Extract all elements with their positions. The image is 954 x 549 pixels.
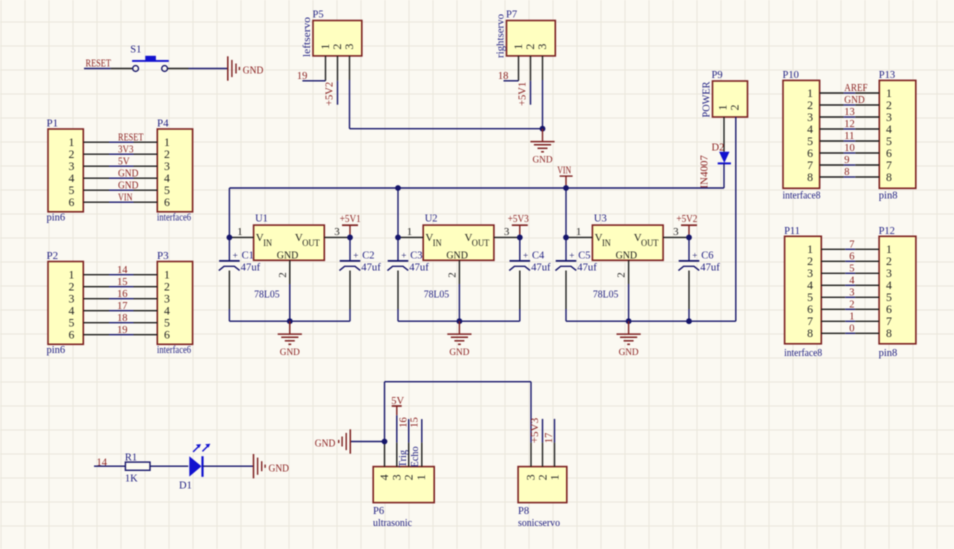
label interface8 (P11) xyxy=(784,348,822,359)
wires P2 to P3 xyxy=(84,275,158,335)
connector P12 xyxy=(879,226,916,344)
svg-text:47uf: 47uf xyxy=(361,262,381,273)
svg-text:GND: GND xyxy=(446,249,468,261)
capacitor C5 xyxy=(555,237,597,321)
svg-text:16: 16 xyxy=(399,417,410,428)
svg-text:pin6: pin6 xyxy=(47,213,66,224)
net label 16 xyxy=(399,417,410,428)
svg-text:GND: GND xyxy=(616,249,638,261)
svg-text:P5: P5 xyxy=(313,10,324,21)
svg-text:C4: C4 xyxy=(532,251,545,262)
wire RESET to S1 xyxy=(84,68,132,70)
power port +5V2 (P5) xyxy=(325,81,338,106)
svg-text:interface8: interface8 xyxy=(783,190,821,201)
svg-text:47uf: 47uf xyxy=(700,262,720,273)
svg-text:47uf: 47uf xyxy=(531,262,551,273)
power port GND (servos) xyxy=(530,129,554,166)
label pin8 (P13) xyxy=(879,190,898,201)
svg-text:19: 19 xyxy=(297,71,308,82)
svg-text:4: 4 xyxy=(849,275,855,286)
junction U2 ground xyxy=(457,318,463,324)
pin 3 of U2 xyxy=(494,226,520,238)
label interface8 (P10) xyxy=(783,190,821,201)
svg-text:18: 18 xyxy=(498,71,509,82)
svg-text:C6: C6 xyxy=(701,251,713,262)
net label 15 xyxy=(410,417,421,428)
svg-text:1: 1 xyxy=(576,226,582,238)
svg-text:15: 15 xyxy=(410,417,421,428)
label interface6 (P4) xyxy=(157,213,191,224)
capacitor C4 xyxy=(509,237,551,321)
capacitor C1 xyxy=(219,237,261,321)
connector P3 xyxy=(157,250,193,344)
svg-text:GND: GND xyxy=(118,168,139,179)
svg-text:pin8: pin8 xyxy=(879,190,898,201)
pin name Echo xyxy=(410,446,421,467)
power port +5V1 xyxy=(340,214,361,238)
svg-text:P8: P8 xyxy=(518,506,529,517)
svg-text:1: 1 xyxy=(414,474,428,480)
LED D1 xyxy=(179,444,210,492)
pin P6-1 xyxy=(421,443,423,467)
diode D2 xyxy=(712,143,731,164)
svg-text:OUT: OUT xyxy=(472,239,490,249)
junction VIN-U3 xyxy=(563,185,569,191)
svg-text:P10: P10 xyxy=(783,70,799,81)
capacitor C2 xyxy=(339,237,381,321)
svg-text:78L05: 78L05 xyxy=(424,289,450,300)
svg-text:rightservo: rightservo xyxy=(496,14,507,58)
net label 17 xyxy=(544,433,555,444)
pin 1 of U1 xyxy=(229,226,253,238)
wire VIN to U2 input xyxy=(397,188,399,237)
pin P7-1 xyxy=(518,56,520,81)
svg-text:+5V3: +5V3 xyxy=(530,418,541,444)
svg-text:1: 1 xyxy=(849,311,854,322)
pin P5-1 xyxy=(325,56,327,81)
svg-text:IN: IN xyxy=(263,239,272,249)
label ultrasonic (P6) xyxy=(373,518,412,529)
svg-text:3: 3 xyxy=(535,44,549,50)
pin P7-3 xyxy=(542,56,544,80)
junction U3 output xyxy=(686,235,692,241)
svg-text:5V: 5V xyxy=(118,156,130,167)
wire pin2 to ground rail xyxy=(289,284,291,321)
pin 2 of U2 xyxy=(447,260,460,284)
svg-text:GND: GND xyxy=(280,347,300,358)
svg-text:3: 3 xyxy=(334,226,340,238)
svg-text:Trig: Trig xyxy=(398,449,409,467)
junction P6 ground xyxy=(382,439,388,445)
svg-text:2: 2 xyxy=(277,272,289,278)
wire net 16 (P6-2) xyxy=(408,419,410,443)
svg-text:P3: P3 xyxy=(157,250,169,262)
capacitor C3 xyxy=(387,237,429,321)
power port 5V (P6) xyxy=(391,396,404,443)
pin P7-2 xyxy=(530,56,532,81)
svg-text:6: 6 xyxy=(164,328,170,342)
svg-text:+: + xyxy=(401,250,406,260)
svg-text:GND: GND xyxy=(619,347,639,358)
svg-text:+: + xyxy=(692,250,697,260)
svg-text:IN4007: IN4007 xyxy=(700,155,711,189)
svg-text:C2: C2 xyxy=(362,251,374,262)
svg-text:VIN: VIN xyxy=(557,166,571,177)
svg-text:47uf: 47uf xyxy=(409,262,429,273)
svg-text:C5: C5 xyxy=(578,251,590,262)
svg-text:C1: C1 xyxy=(242,251,254,262)
svg-text:RESET: RESET xyxy=(118,132,144,143)
wire VIN to U3 input xyxy=(565,188,567,237)
capacitor C6 xyxy=(678,237,720,321)
pin P8-1 xyxy=(554,443,556,467)
svg-text:IN: IN xyxy=(433,239,442,249)
svg-text:P13: P13 xyxy=(879,70,895,81)
net label 19 xyxy=(297,71,308,82)
svg-text:5: 5 xyxy=(849,263,854,274)
svg-text:1: 1 xyxy=(237,226,243,238)
label leftservo (P5) xyxy=(302,17,313,57)
svg-text:+: + xyxy=(233,250,238,260)
svg-text:8: 8 xyxy=(886,326,892,340)
wires P11 to P12 xyxy=(821,249,879,333)
wire P6-4 up to rail xyxy=(384,382,386,443)
junction U1 ground xyxy=(287,318,293,324)
svg-text:8: 8 xyxy=(844,167,849,178)
svg-text:D1: D1 xyxy=(179,481,192,492)
pin P9-2 wire down xyxy=(735,117,737,321)
svg-text:3: 3 xyxy=(342,44,356,50)
svg-text:12: 12 xyxy=(844,119,855,130)
svg-text:+: + xyxy=(353,250,358,260)
wire ground rail U3 xyxy=(566,320,736,322)
svg-text:OUT: OUT xyxy=(302,239,320,249)
svg-text:GND: GND xyxy=(118,180,139,191)
svg-text:pin8: pin8 xyxy=(879,348,898,359)
svg-text:+5V1: +5V1 xyxy=(518,82,529,106)
svg-text:D2: D2 xyxy=(712,143,725,154)
junction C6 ground rail xyxy=(686,318,692,324)
wire net 15 (P6-1) xyxy=(421,419,423,443)
svg-text:3: 3 xyxy=(673,226,679,238)
wires P10 to P13 xyxy=(820,93,880,177)
pin P5-3 xyxy=(349,56,351,80)
svg-text:P6: P6 xyxy=(373,506,384,517)
connector P5 xyxy=(313,10,362,56)
wire D2 to VIN rail xyxy=(723,163,725,188)
junction U3 input xyxy=(563,235,569,241)
svg-text:+5V1: +5V1 xyxy=(340,214,361,225)
svg-text:U1: U1 xyxy=(255,213,268,224)
connector P9 xyxy=(712,70,748,117)
svg-text:47uf: 47uf xyxy=(241,262,261,273)
net label RESET xyxy=(86,59,112,70)
label 78L05 (U3) xyxy=(593,289,619,300)
pin P8-3 xyxy=(530,443,532,467)
label pin6 (P1) xyxy=(47,213,66,224)
label 78L05 (U2) xyxy=(424,289,450,300)
svg-text:ultrasonic: ultrasonic xyxy=(373,518,412,529)
svg-text:+: + xyxy=(569,250,574,260)
svg-text:P2: P2 xyxy=(47,250,59,262)
svg-text:GND: GND xyxy=(449,347,469,358)
label pin6 (P2) xyxy=(47,345,66,356)
svg-text:S1: S1 xyxy=(130,45,141,56)
svg-text:15: 15 xyxy=(117,277,128,288)
svg-text:P1: P1 xyxy=(47,118,59,130)
svg-text:+5V2: +5V2 xyxy=(676,214,697,225)
pin P6-4 xyxy=(384,443,386,467)
svg-text:leftservo: leftservo xyxy=(302,17,313,57)
power port VIN xyxy=(557,166,572,188)
connector P6 xyxy=(373,467,434,517)
voltage regulator U1 xyxy=(254,213,325,261)
svg-text:1K: 1K xyxy=(125,474,138,485)
power port GND (U3) xyxy=(617,321,641,358)
svg-text:1: 1 xyxy=(407,226,413,238)
svg-text:6: 6 xyxy=(68,195,74,209)
switch S1 xyxy=(130,45,169,72)
pin P5-2 xyxy=(337,56,339,81)
label IN4007 xyxy=(700,155,711,189)
power port GND (reset) xyxy=(228,56,264,80)
svg-text:2: 2 xyxy=(447,272,459,278)
svg-text:GND: GND xyxy=(243,65,264,77)
svg-text:3: 3 xyxy=(504,226,510,238)
net label 18 xyxy=(498,71,509,82)
pin 2 of U3 xyxy=(616,260,629,284)
svg-text:17: 17 xyxy=(544,433,555,444)
junction U3 ground xyxy=(626,318,632,324)
svg-text:47uf: 47uf xyxy=(577,262,597,273)
svg-text:interface8: interface8 xyxy=(784,348,822,359)
svg-text:13: 13 xyxy=(844,107,855,118)
power port GND (U1) xyxy=(278,321,302,358)
svg-text:+: + xyxy=(523,250,528,260)
power port GND (D1) xyxy=(254,454,290,478)
connector P10 xyxy=(783,70,820,188)
connector P1 xyxy=(47,118,84,212)
svg-text:6: 6 xyxy=(68,328,74,342)
wire D1 to GND xyxy=(203,465,254,467)
svg-text:P11: P11 xyxy=(784,226,800,237)
power port +5V3 xyxy=(508,214,529,238)
junction U1 input xyxy=(227,235,233,241)
svg-text:interface6: interface6 xyxy=(157,213,191,224)
svg-text:6: 6 xyxy=(164,195,170,209)
wire net 18 (P7) xyxy=(504,80,519,82)
wire ground rail U1 xyxy=(229,320,350,322)
wire ground rail U2 xyxy=(398,320,520,322)
svg-text:17: 17 xyxy=(117,301,128,312)
resistor R1 xyxy=(125,452,150,484)
svg-text:POWER: POWER xyxy=(702,82,713,118)
net label 14 xyxy=(97,457,108,468)
power port GND (P6) xyxy=(315,429,351,453)
svg-text:interface6: interface6 xyxy=(157,345,191,356)
power port GND (U2) xyxy=(447,321,471,358)
wire top rail P6 to P8 xyxy=(385,382,532,443)
junction servo GND xyxy=(540,126,546,132)
svg-text:GND: GND xyxy=(277,249,299,261)
svg-text:7: 7 xyxy=(849,239,854,250)
svg-text:P7: P7 xyxy=(506,10,517,21)
label 78L05 (U1) xyxy=(254,289,280,300)
svg-text:2: 2 xyxy=(849,299,854,310)
svg-text:8: 8 xyxy=(886,170,892,184)
wire net 17 (P8-1) xyxy=(554,419,556,443)
svg-text:pin6: pin6 xyxy=(47,345,66,356)
label sonicservo (P8) xyxy=(518,518,560,529)
label rightservo (P7) xyxy=(496,14,507,58)
net labels 7 6 5 4 3 2 1 0 xyxy=(849,239,855,334)
wires P1 to P4 xyxy=(84,142,158,202)
junction VIN-U2 xyxy=(395,185,401,191)
svg-text:GND: GND xyxy=(533,155,553,166)
wire P5-3 to GND junction xyxy=(350,80,543,129)
svg-text:VIN: VIN xyxy=(118,192,133,203)
svg-text:8: 8 xyxy=(807,170,813,184)
svg-text:6: 6 xyxy=(849,251,854,262)
svg-text:14: 14 xyxy=(117,265,128,276)
connector P4 xyxy=(157,118,193,212)
label pin8 (P12) xyxy=(879,348,898,359)
pin P6-3 xyxy=(396,443,398,467)
svg-text:19: 19 xyxy=(117,325,128,336)
svg-text:sonicservo: sonicservo xyxy=(518,518,560,529)
svg-text:P4: P4 xyxy=(157,118,169,130)
pin 3 of U1 xyxy=(324,226,350,238)
svg-text:U3: U3 xyxy=(594,213,607,224)
voltage regulator U2 xyxy=(423,213,494,261)
svg-text:3: 3 xyxy=(849,287,854,298)
net labels AREF GND 13 12 11 10 9 8 xyxy=(844,83,867,178)
svg-text:2: 2 xyxy=(728,105,742,111)
pin 1 of U3 xyxy=(566,226,592,238)
power port +5V2 xyxy=(676,214,697,238)
svg-text:78L05: 78L05 xyxy=(254,289,280,300)
svg-text:16: 16 xyxy=(117,289,128,300)
connector P11 xyxy=(784,226,821,344)
wire net VIN rail xyxy=(229,188,724,237)
wire net 19 (P5) xyxy=(302,80,325,82)
pin P8-2 xyxy=(542,443,544,467)
svg-text:OUT: OUT xyxy=(641,239,659,249)
svg-text:10: 10 xyxy=(844,143,855,154)
svg-text:9: 9 xyxy=(844,155,849,166)
wire GND to P6-4 xyxy=(350,441,384,443)
svg-text:0: 0 xyxy=(849,323,854,334)
connector P8 xyxy=(518,467,567,517)
junction U2 input xyxy=(395,235,401,241)
net labels RESET 3V3 5V GND GND VIN xyxy=(118,132,144,203)
svg-text:8: 8 xyxy=(807,326,813,340)
wire P7-3 down xyxy=(542,80,544,129)
label POWER (P9) xyxy=(702,82,713,118)
svg-text:GND: GND xyxy=(315,438,336,450)
pin P6-2 xyxy=(408,443,410,467)
junction U2 output xyxy=(517,235,523,241)
power port +5V1 (P7) xyxy=(518,81,531,106)
power port +5V3 (P8) xyxy=(530,418,542,444)
svg-text:P9: P9 xyxy=(712,70,723,81)
svg-text:+5V2: +5V2 xyxy=(325,82,336,106)
svg-text:Echo: Echo xyxy=(410,446,421,467)
svg-text:3V3: 3V3 xyxy=(118,144,134,155)
wire net 14 xyxy=(94,465,125,467)
pin 2 of U1 xyxy=(277,260,290,284)
svg-text:U2: U2 xyxy=(425,213,438,224)
svg-text:18: 18 xyxy=(117,313,128,324)
svg-text:+5V3: +5V3 xyxy=(508,214,529,225)
svg-text:AREF: AREF xyxy=(844,83,867,94)
svg-text:R1: R1 xyxy=(125,452,137,463)
svg-text:GND: GND xyxy=(844,95,865,106)
wire pin2 to ground rail xyxy=(628,284,630,321)
net labels 14 15 16 17 18 19 xyxy=(117,265,128,336)
wire R1 to D1 xyxy=(150,465,188,467)
voltage regulator U3 xyxy=(592,213,663,261)
svg-text:78L05: 78L05 xyxy=(593,289,619,300)
wire pin2 to ground rail xyxy=(458,284,460,321)
svg-text:IN: IN xyxy=(602,239,611,249)
wire S1 to GND xyxy=(168,68,228,70)
svg-text:C3: C3 xyxy=(410,251,422,262)
connector P13 xyxy=(879,70,916,188)
pin 3 of U3 xyxy=(663,226,689,238)
pin 1 of U2 xyxy=(398,226,423,238)
svg-text:11: 11 xyxy=(844,131,854,142)
svg-text:2: 2 xyxy=(616,272,628,278)
pin name Trig xyxy=(398,449,409,467)
pin P9-1 xyxy=(723,117,725,152)
junction U1 output xyxy=(347,235,353,241)
label interface6 (P3) xyxy=(157,345,191,356)
svg-text:1: 1 xyxy=(548,474,562,480)
connector P2 xyxy=(47,250,84,344)
svg-text:GND: GND xyxy=(269,462,290,474)
connector P7 xyxy=(506,10,555,56)
svg-text:P12: P12 xyxy=(879,226,895,237)
